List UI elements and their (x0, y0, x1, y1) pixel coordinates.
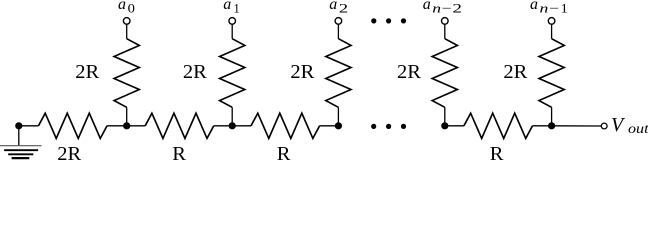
svg-text:an−2: an−2 (423, 0, 462, 16)
svg-text:2R: 2R (75, 61, 99, 83)
resistor 2R (a0 branch) (114, 39, 139, 108)
node a0 junction (123, 122, 130, 129)
wire 2R to node a1 (231, 107, 233, 126)
node a_n-2 junction (441, 122, 448, 129)
svg-text:2R: 2R (183, 61, 207, 83)
terminal a0 (123, 18, 130, 25)
resistor R (node a1 to node a2) (232, 125, 251, 127)
resistor 2R (ladder termination) (38, 113, 107, 138)
node a_n-1 junction (548, 122, 555, 129)
svg-text:Vout: Vout (611, 114, 648, 137)
svg-text:a2: a2 (329, 0, 348, 16)
wire terminal a0 to 2R (126, 24, 128, 39)
node a2 junction (335, 122, 342, 129)
wire ground to 2R (19, 125, 39, 127)
terminal a1 (229, 18, 236, 25)
output terminal Vout (601, 123, 607, 129)
wire terminal a_n-1 to 2R (551, 24, 553, 39)
resistor 2R (a1 branch) (220, 39, 245, 108)
ellipsis dots (terminals continuation) (371, 18, 406, 23)
resistor R (node a0 to node a1) (127, 125, 145, 127)
wire terminal a_n-2 to 2R (444, 24, 446, 39)
wire 2R to node a0 (126, 107, 128, 126)
svg-text:a1: a1 (223, 0, 240, 16)
wire 2R to node a_n-2 (444, 107, 446, 126)
resistor 2R (a2 branch) (326, 39, 351, 108)
svg-text:2R: 2R (397, 61, 421, 83)
svg-text:2R: 2R (503, 61, 527, 83)
terminal a_n-2 (442, 18, 449, 25)
wire 2R to node a0 (107, 125, 127, 127)
ellipsis dots (rail continuation) (371, 124, 406, 129)
wire node a_n-1 to output terminal (552, 125, 602, 127)
wire terminal a1 to 2R (231, 24, 233, 39)
svg-text:R: R (490, 143, 504, 162)
R-2R ladder DAC schematic (0, 0, 648, 162)
svg-text:R: R (172, 143, 186, 162)
svg-text:2R: 2R (57, 143, 81, 162)
wire 2R to node a2 (337, 107, 339, 126)
terminal a2 (335, 18, 342, 25)
svg-text:a0: a0 (118, 0, 135, 16)
resistor 2R (a_n-2 branch) (432, 39, 457, 108)
node ground junction (15, 122, 22, 129)
node a1 junction (229, 122, 236, 129)
wire terminal a2 to 2R (337, 24, 339, 39)
ground (0, 126, 42, 158)
terminal a_n-1 (548, 18, 555, 25)
resistor R (node a_n-2 to node a_n-1) (445, 125, 464, 127)
svg-text:2R: 2R (290, 61, 314, 83)
svg-text:an−1: an−1 (530, 0, 568, 16)
resistor 2R (a_n-1 branch) (539, 39, 564, 108)
svg-text:R: R (277, 143, 291, 162)
wire 2R to node a_n-1 (551, 107, 553, 126)
